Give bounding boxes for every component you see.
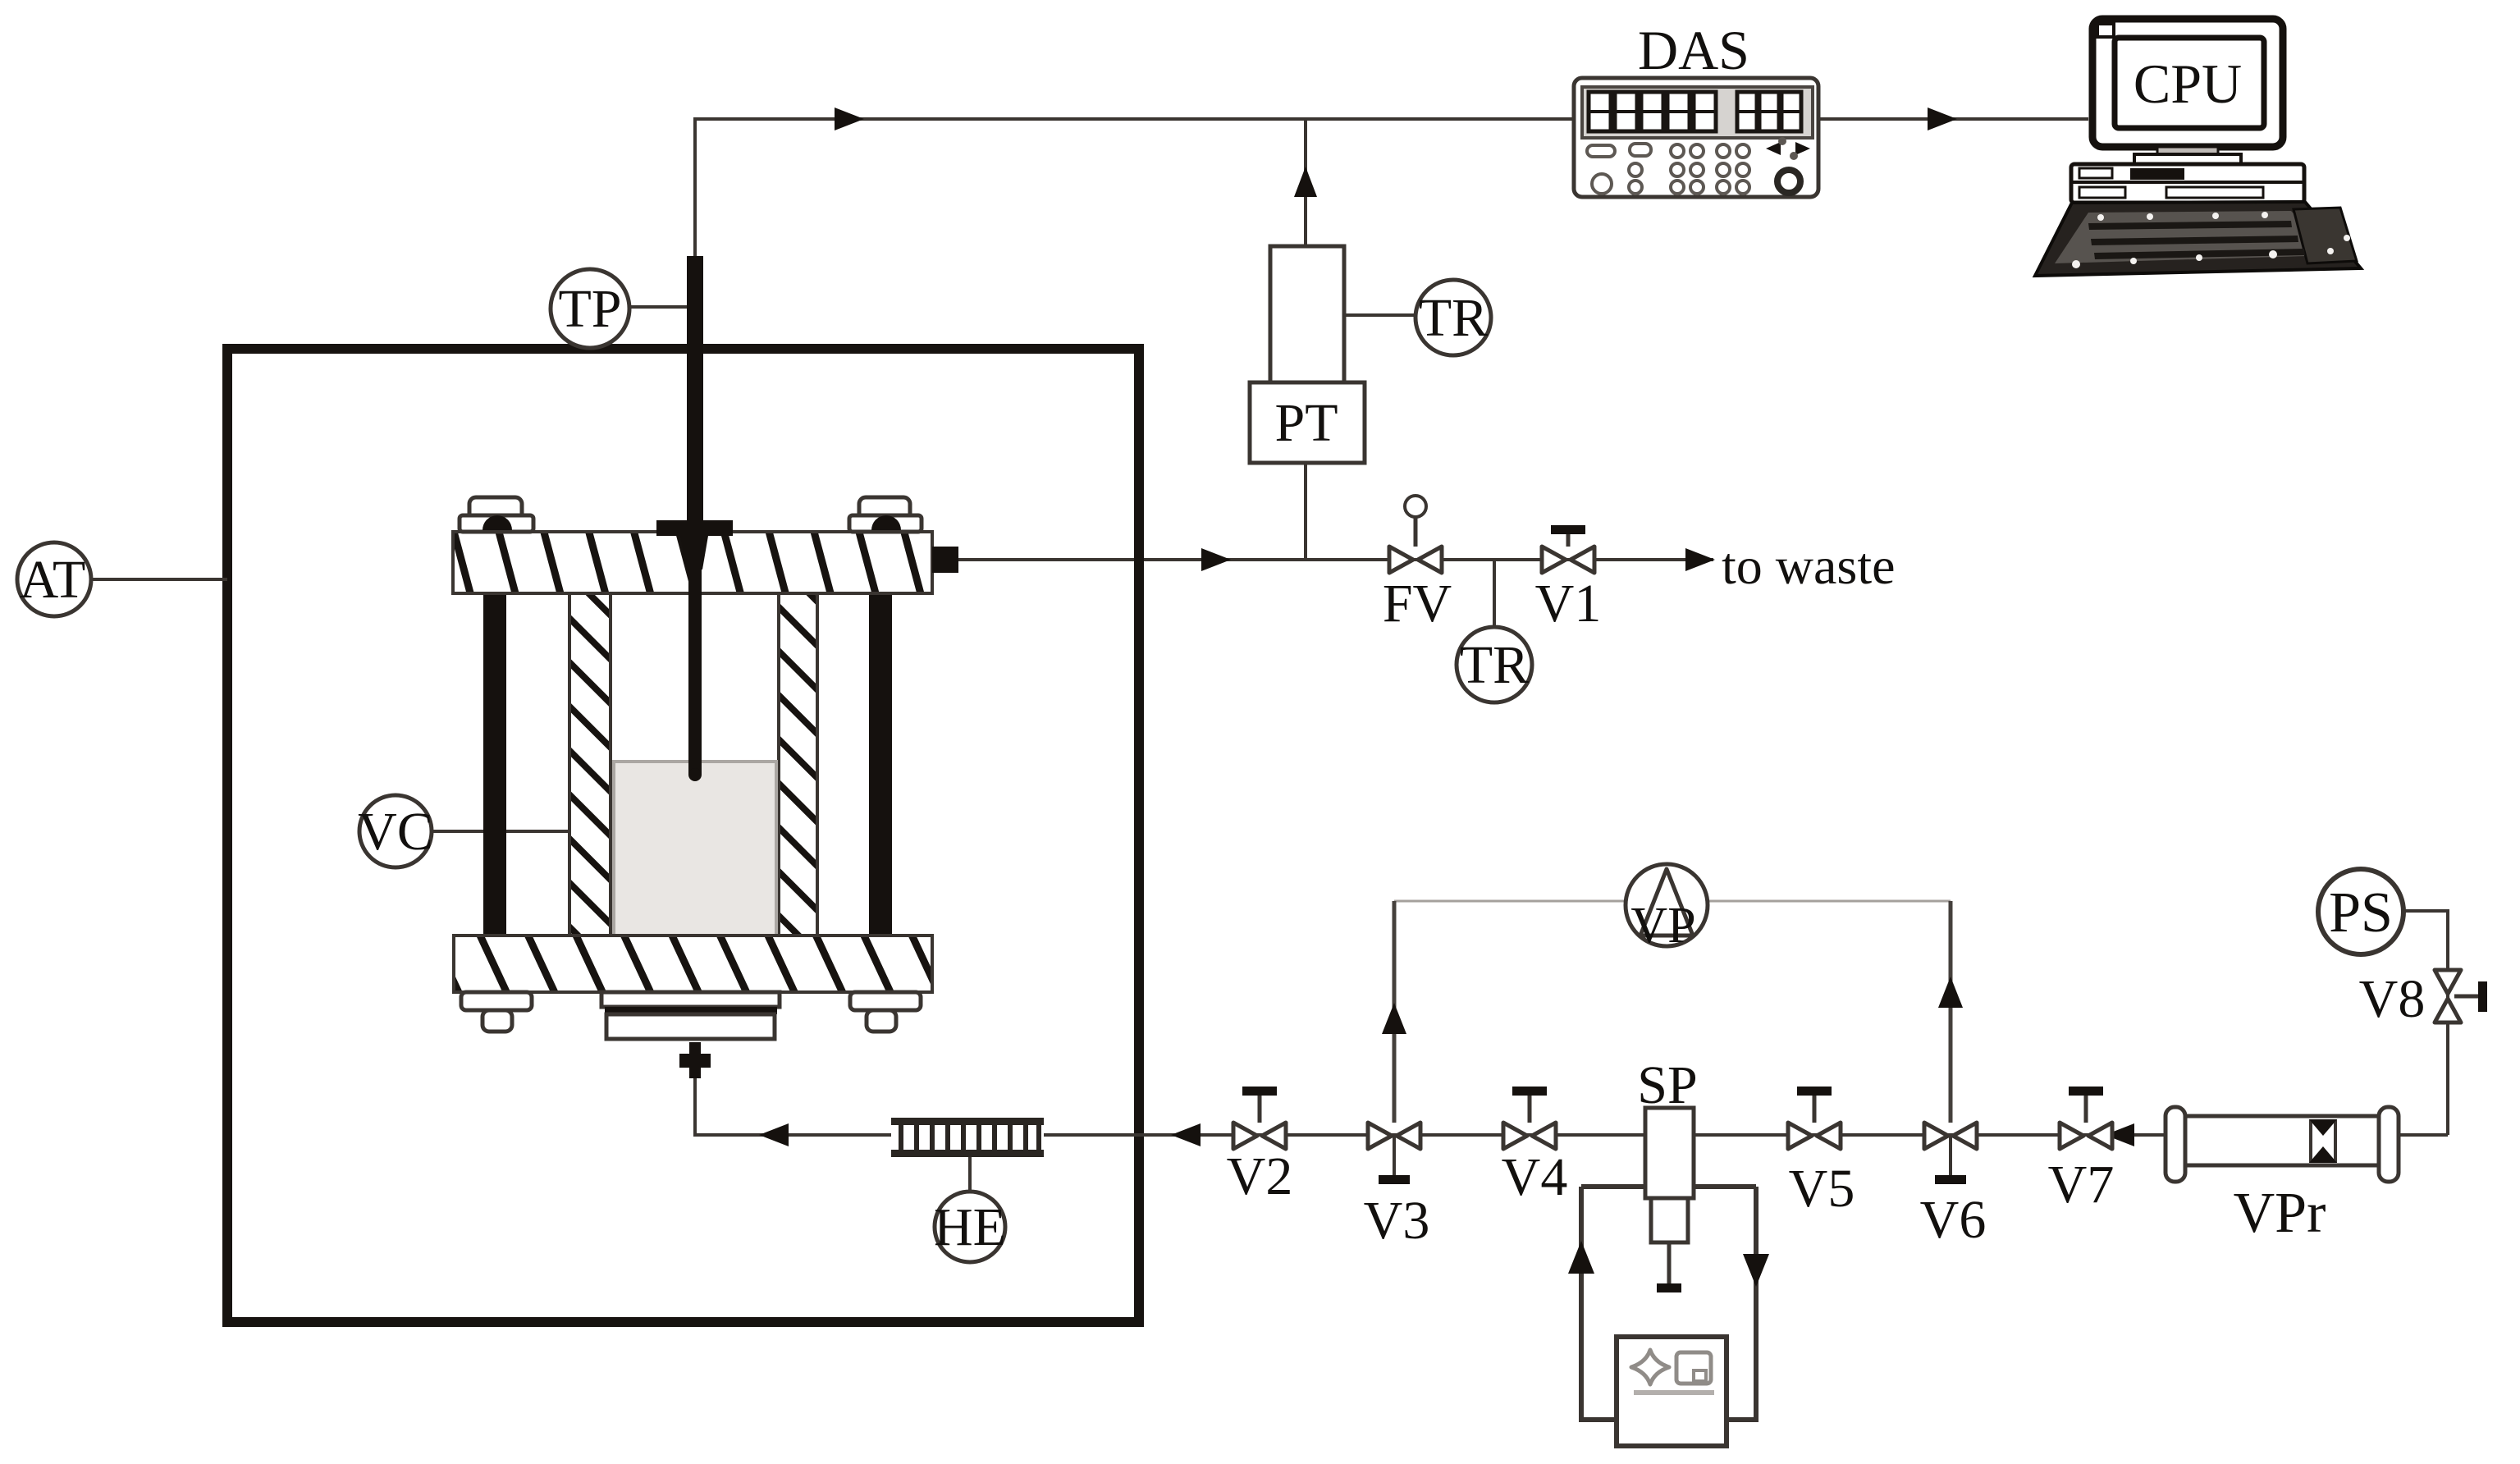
svg-text:PT: PT [1274,393,1338,453]
svg-text:PS: PS [2329,881,2393,945]
svg-text:TP: TP [558,279,621,339]
svg-text:TR: TR [1419,288,1488,348]
svg-text:V6: V6 [1920,1190,1987,1250]
svg-text:VC: VC [358,802,433,862]
svg-text:FV: FV [1383,574,1452,634]
svg-text:V4: V4 [1502,1147,1568,1207]
svg-text:DAS: DAS [1638,19,1749,81]
svg-text:VPr: VPr [2234,1182,2326,1245]
svg-text:TR: TR [1460,635,1529,695]
svg-text:HE: HE [934,1197,1006,1257]
svg-text:V7: V7 [2048,1155,2115,1215]
svg-text:CPU: CPU [2134,53,2242,115]
svg-text:VP: VP [1630,898,1695,954]
svg-text:V5: V5 [1789,1159,1855,1219]
svg-text:to waste: to waste [1722,537,1896,595]
svg-text:V1: V1 [1535,574,1602,634]
svg-text:AT: AT [20,550,86,610]
svg-text:SP: SP [1637,1055,1697,1115]
svg-text:V3: V3 [1364,1191,1430,1251]
svg-text:V2: V2 [1227,1146,1293,1206]
svg-text:V8: V8 [2359,969,2426,1029]
